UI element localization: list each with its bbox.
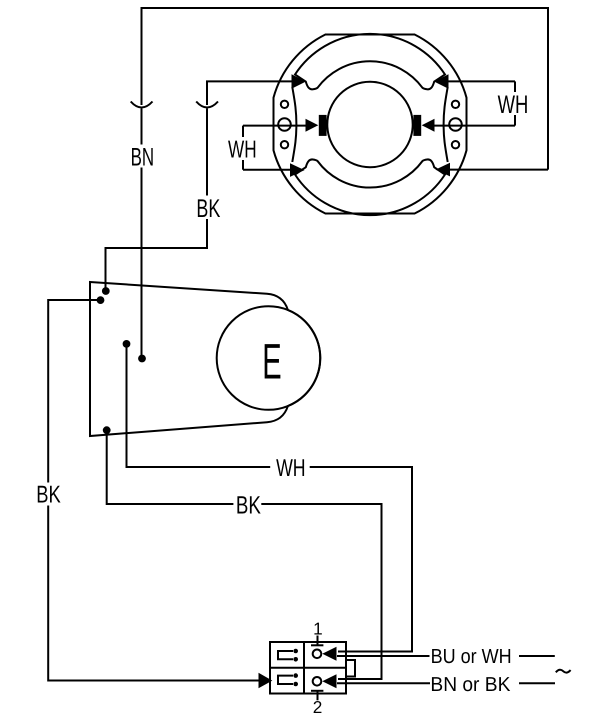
arrow top-right pole tip bbox=[434, 74, 449, 89]
junction dot D (BN wire end) bbox=[138, 355, 146, 363]
pin 1 circle bbox=[313, 650, 322, 659]
svg-text:E: E bbox=[262, 333, 281, 389]
wire stator top-right bbox=[449, 80, 516, 82]
junction dot C (WH wire top) bbox=[123, 340, 131, 348]
wire BK lower to connector pin 2 bbox=[107, 430, 382, 679]
alternator stator outer shell bbox=[274, 35, 467, 214]
break symbol on BN wire bbox=[131, 102, 153, 108]
arrow top-left pole tip bbox=[292, 74, 307, 89]
left mounting hole small top bbox=[281, 101, 288, 108]
right mounting hole small bottom bbox=[452, 141, 459, 148]
wire stator bottom-right to BN loop bbox=[450, 169, 548, 171]
svg-text:BN: BN bbox=[131, 144, 155, 172]
svg-text:BK: BK bbox=[196, 195, 220, 223]
line after BN or BK bbox=[519, 682, 555, 684]
terminal dots row 2 bbox=[293, 673, 298, 686]
rotor circle bbox=[327, 82, 412, 167]
left mounting hole small bottom bbox=[281, 141, 288, 148]
junction dot E (BK lower top) bbox=[103, 426, 111, 434]
break symbol on BK wire bbox=[196, 102, 218, 108]
svg-text:WH: WH bbox=[228, 136, 257, 163]
svg-text:BU or WH: BU or WH bbox=[431, 646, 512, 668]
left WH bracket bbox=[242, 126, 244, 170]
svg-text:WH: WH bbox=[498, 91, 529, 119]
right mounting hole small top bbox=[452, 101, 459, 108]
leader line BN or BK bbox=[337, 682, 430, 684]
arrow bottom-right pole tip bbox=[436, 163, 451, 177]
terminal dots row 1 bbox=[293, 649, 298, 662]
svg-text:BN or BK: BN or BK bbox=[430, 674, 510, 696]
left mounting hole large bbox=[278, 118, 291, 131]
connector bump right side bbox=[346, 660, 355, 677]
right mounting hole large bbox=[449, 118, 462, 131]
stator bottom pole winding bbox=[295, 159, 445, 215]
junction dot B (BK left to E unit) bbox=[97, 296, 105, 304]
pin 2 arrow bbox=[322, 674, 336, 688]
pin 2 tick bbox=[311, 691, 323, 701]
diode left (bar) bbox=[319, 115, 327, 136]
wire stator bottom-left stub bbox=[243, 169, 290, 171]
junction dot A (BK upper to E unit) bbox=[102, 287, 110, 295]
diode right (bar) bbox=[413, 115, 421, 136]
wire BK upper bbox=[106, 81, 292, 291]
wire stator mid-right bbox=[435, 125, 516, 127]
svg-text:BK: BK bbox=[36, 482, 61, 509]
arrowhead into connector pin 2 from left bbox=[259, 673, 273, 689]
pin 2 circle bbox=[313, 677, 322, 686]
wire BK left (kill wire) bbox=[48, 300, 258, 681]
connector vertical divider bbox=[303, 642, 305, 694]
ignition unit baseplate (trapezoid) bbox=[90, 282, 320, 436]
right WH bracket bbox=[514, 81, 516, 125]
AC symbol bbox=[556, 670, 571, 673]
terminal socket row 1 bbox=[278, 651, 293, 659]
ignition coil circle E bbox=[217, 306, 321, 410]
pin 1 arrow bbox=[322, 647, 336, 661]
svg-text:2: 2 bbox=[313, 697, 323, 717]
svg-text:1: 1 bbox=[313, 619, 323, 639]
terminal socket row 2 bbox=[278, 676, 293, 684]
connector block outline bbox=[270, 642, 346, 694]
wire BN outer loop bbox=[142, 8, 549, 359]
line after BU or WH bbox=[519, 655, 555, 657]
stator top pole winding bbox=[295, 34, 445, 90]
stator right tab inner edge bbox=[444, 87, 448, 162]
pin 1 tick bbox=[311, 636, 323, 646]
stator left tab inner edge bbox=[292, 87, 296, 162]
wire WH from E unit to connector pin 1 bbox=[127, 344, 413, 652]
connector horizontal divider bbox=[270, 667, 346, 669]
arrow bottom-left pole tip bbox=[290, 163, 305, 177]
leader line BU or WH bbox=[337, 655, 430, 657]
wire stator mid-left bbox=[243, 125, 306, 127]
diode left (triangle) bbox=[306, 119, 319, 132]
svg-text:BK: BK bbox=[236, 491, 261, 519]
svg-text:WH: WH bbox=[276, 455, 306, 482]
diode right (triangle) bbox=[422, 119, 435, 132]
